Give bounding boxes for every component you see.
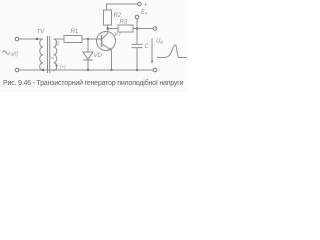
svg-text:Eк: Eк	[141, 10, 148, 16]
waveform sawtooth	[157, 45, 187, 58]
resistor R1	[64, 36, 82, 43]
svg-text:Uв: Uв	[156, 39, 163, 45]
transistor VT emitter with arrow	[102, 44, 112, 71]
svg-text:R3: R3	[120, 20, 128, 26]
node dot emitter bottom	[110, 69, 112, 71]
wire secondary top to R1	[54, 38, 65, 40]
terminal Ek2 stub	[136, 19, 138, 29]
node dot capacitor bottom	[136, 69, 138, 71]
node collector dot	[107, 27, 110, 30]
transformer TV primary winding	[40, 39, 43, 71]
svg-text:C: C	[145, 44, 150, 50]
caption	[3, 80, 191, 87]
node dot primary top	[36, 38, 38, 40]
wire R2 bottom to collector node	[107, 25, 109, 29]
wire collector node to R3	[108, 28, 118, 30]
node A (base/diode junction)	[87, 38, 89, 40]
svg-text:R2: R2	[114, 13, 122, 19]
node dot primary bottom	[42, 69, 44, 71]
transformer core	[48, 36, 50, 73]
diode VD	[83, 52, 93, 70]
transistor VT collector	[102, 29, 108, 40]
wire input top to transformer	[19, 38, 43, 40]
polarity dot secondary bottom	[56, 65, 58, 67]
voltage arrow U	[151, 39, 153, 63]
resistor R3	[118, 25, 133, 32]
node dot diode bottom	[87, 69, 89, 71]
wire R2 top to +Ek rail	[107, 4, 138, 10]
svg-text:+: +	[144, 3, 148, 9]
svg-text:(-): (-)	[55, 41, 60, 46]
transistor VT base bar	[101, 35, 103, 47]
svg-text:u(t): u(t)	[11, 52, 19, 58]
transistor VT circle	[97, 32, 116, 51]
svg-text:R1: R1	[71, 29, 79, 35]
wire cap node down to capacitor	[136, 29, 138, 45]
terminal +Ek	[138, 2, 142, 6]
svg-text:(+): (+)	[60, 64, 66, 69]
input terminal bottom	[15, 68, 19, 72]
capacitor C	[132, 44, 143, 70]
transformer TV secondary winding	[54, 39, 57, 71]
source squiggle	[3, 51, 10, 54]
svg-text:VT: VT	[114, 32, 123, 38]
wire R1 to base node	[82, 38, 102, 40]
wire R3 to cap node	[133, 28, 153, 30]
bottom rail wire	[19, 69, 153, 71]
output terminal bottom	[153, 68, 157, 72]
input terminal top	[15, 37, 19, 41]
node cap dot	[136, 27, 139, 30]
resistor R2	[104, 10, 112, 25]
svg-text:(в): (в)	[50, 55, 55, 60]
svg-text:VD: VD	[94, 53, 103, 59]
output terminal top	[153, 27, 157, 31]
svg-text:TV: TV	[37, 30, 46, 36]
wire node A down to diode	[87, 39, 89, 52]
